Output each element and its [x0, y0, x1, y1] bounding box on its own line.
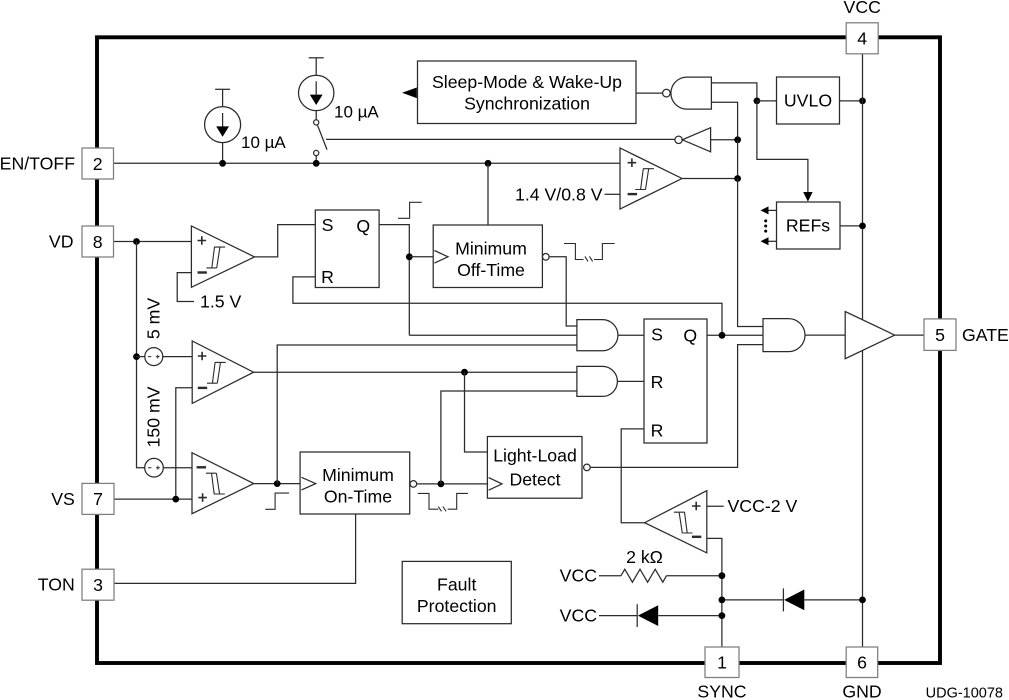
buffer U13 (gate driver) [845, 312, 895, 359]
wire U8 output to buffer [805, 334, 845, 336]
wire 150mV source to comparator U10 minus [163, 467, 192, 469]
chevron input marker Min On-Time [302, 477, 316, 490]
svg-text:1.4 V/0.8 V: 1.4 V/0.8 V [515, 184, 603, 204]
wire latch1 R loop to latch2 Q [293, 277, 722, 335]
svg-text:R: R [651, 421, 664, 441]
wire latch2 R bottom to comparator U12 output [621, 429, 644, 523]
node dot D1/SYNC [719, 612, 726, 619]
wire bus down to AND U8 top input [738, 179, 763, 327]
wire U9 output to AND U7b top input [254, 371, 577, 373]
wire bus vertical segment [737, 140, 739, 179]
comparator U5 (VD 1.5V, hysteresis) [191, 226, 254, 287]
inverter U3 (left-facing) [675, 128, 711, 152]
waveform step-up symbol near latch1 Q [398, 202, 422, 218]
wire U12 plus to VCC-2V label [707, 505, 724, 507]
wire branch up to AND U7b bottom input [441, 391, 577, 484]
NAND gate U2 (left-facing) [663, 77, 712, 109]
svg-text:REFs: REFs [786, 216, 830, 236]
wire sleep block to NAND bubble [636, 92, 663, 94]
svg-text:VS: VS [51, 489, 75, 509]
svg-text:Light-Load: Light-Load [493, 446, 577, 466]
node junction dots on EN/TOFF line [219, 160, 226, 167]
wire Light-Load output up to AND U8 bottom input [590, 345, 763, 468]
node dot D2/GND rail [859, 597, 866, 604]
wire latch2 Q to AND U8 mid input [707, 334, 763, 336]
block Fault Protection [402, 561, 511, 623]
wire Min On-Time output to Light-Load chevron [417, 483, 488, 485]
node dot latch1 Q / minoff input [406, 253, 413, 260]
wire 1.4V label to comparator minus [605, 193, 621, 195]
node dot VS branch [172, 496, 179, 503]
svg-text:UVLO: UVLO [784, 91, 832, 111]
wire VD net pin8 to comparator U5 [114, 241, 192, 243]
svg-text:GATE: GATE [962, 325, 1009, 345]
waveform pulse-low symbol right of Min On-Time [418, 493, 468, 511]
svg-text:Detect: Detect [509, 470, 560, 490]
svg-text:Q: Q [356, 216, 370, 236]
wire U7 mid input (from latch1 Q) [409, 334, 577, 336]
wire junction to UVLO [757, 100, 777, 102]
node dot U10 output branch [274, 480, 281, 487]
wire branch up to AND U7 bottom input [277, 345, 577, 484]
wire VD branch to 5mV source [137, 356, 145, 358]
svg-text:10 µA: 10 µA [241, 133, 286, 152]
svg-text:150 mV: 150 mV [144, 386, 164, 447]
svg-text:2: 2 [93, 154, 103, 174]
svg-text:GND: GND [842, 682, 881, 700]
pin 1 SYNC [705, 647, 739, 678]
comparator U4 (EN threshold, hysteresis) [620, 148, 682, 209]
wire inverter input from bus [711, 139, 738, 141]
current source I1 10uA [205, 89, 241, 163]
svg-text:Synchronization: Synchronization [464, 94, 590, 114]
svg-text:TON: TON [38, 575, 75, 595]
svg-text:R: R [321, 267, 334, 287]
bubble Light-Load output [584, 464, 591, 471]
pin 7 VS [82, 483, 114, 514]
bubble Min On-Time output [410, 481, 417, 488]
svg-text:1.5 V: 1.5 V [200, 292, 242, 312]
svg-text:Minimum: Minimum [322, 465, 394, 485]
svg-text:VCC-2 V: VCC-2 V [728, 496, 798, 516]
block Minimum On-Time [300, 452, 410, 514]
svg-text:Q: Q [683, 325, 697, 345]
svg-text:4: 4 [857, 29, 867, 49]
node dot UVLO/VCC rail [859, 98, 866, 105]
wire UVLO to VCC rail [840, 100, 863, 102]
svg-text:VD: VD [49, 232, 74, 252]
svg-text:5 mV: 5 mV [144, 298, 164, 339]
block Sleep-Mode & Wake-Up Synchronization [418, 61, 637, 124]
node dot inverter bus [734, 136, 741, 143]
bubble Min Off-Time output [543, 253, 550, 260]
block Minimum Off-Time [433, 225, 542, 288]
source V2 150 mV [145, 458, 164, 477]
svg-text:7: 7 [93, 489, 103, 509]
wire node to Min Off-Time input [409, 256, 433, 258]
wire EN/TOFF horizontal net pin2 to comparator [114, 162, 621, 164]
chevron input marker Light-Load [489, 478, 502, 491]
outer border frame [97, 37, 940, 663]
REFs output arrows left [761, 206, 777, 245]
wire latch1 Q output right and down [379, 225, 409, 336]
node dot VD branch [133, 238, 140, 245]
wire U7 output to latch2 S [618, 334, 644, 336]
block UVLO [777, 77, 840, 124]
arrowhead into REFs [803, 192, 812, 202]
svg-text:R: R [651, 372, 664, 392]
svg-text:8: 8 [93, 232, 103, 252]
wire TON pin3 to Min On-Time bottom [114, 514, 356, 583]
diode D2 [722, 588, 863, 611]
svg-text:10 µA: 10 µA [334, 103, 379, 122]
svg-text:Sleep-Mode & Wake-Up: Sleep-Mode & Wake-Up [432, 72, 622, 92]
pin 4 VCC [846, 23, 878, 54]
node dot D2/SYNC [719, 597, 726, 604]
wire U9 minus down to VS node [176, 388, 192, 499]
pin 5 GATE [924, 319, 956, 351]
switch SW1 [314, 120, 327, 164]
node dot resistor/SYNC [719, 572, 726, 579]
wire U10 output to Min On-Time [254, 483, 300, 485]
svg-text:EN/TOFF: EN/TOFF [0, 153, 75, 173]
svg-text:3: 3 [93, 575, 103, 595]
block REFs [777, 202, 841, 249]
node dot REFs/VCC rail [859, 223, 866, 230]
wire VS net pin7 to U10 plus [114, 498, 192, 500]
source V1 5 mV [145, 348, 163, 366]
svg-text:VCC: VCC [560, 606, 598, 626]
wire U7b output to latch2 R [617, 380, 644, 382]
pin 3 TON [82, 569, 114, 600]
svg-text:UDG-10078: UDG-10078 [926, 686, 1003, 700]
AND gate U8 (3-input to gate driver) [763, 319, 805, 352]
chevron input marker Min Off-Time [434, 251, 448, 264]
wire EN line down into Min Off-Time top [487, 163, 489, 225]
wire comparator U4 output to bus [682, 178, 738, 180]
pin 2 EN/TOFF [82, 148, 114, 179]
svg-text:Fault: Fault [437, 575, 476, 595]
diode D1 [599, 604, 722, 627]
wire REFs to VCC rail [840, 225, 863, 227]
svg-text:Off-Time: Off-Time [457, 260, 525, 280]
svg-text:Protection: Protection [417, 596, 497, 616]
svg-text:2 kΩ: 2 kΩ [626, 547, 663, 567]
pin 6 GND [846, 647, 878, 678]
SR latch U11 [644, 319, 707, 443]
resistor R1 2k [599, 569, 722, 582]
svg-text:SYNC: SYNC [697, 682, 746, 700]
wire U12 minus down SYNC node [707, 538, 722, 647]
wire 5mV source to comparator U9 plus [162, 356, 192, 358]
svg-text:6: 6 [857, 652, 867, 672]
wire buffer output to pin5 [895, 334, 924, 336]
node dot latch2 Q [719, 332, 726, 339]
svg-text:1: 1 [717, 652, 727, 672]
AND gate U7 (3-input to latch2 S) [577, 320, 618, 351]
wire switch to inverter [326, 138, 675, 140]
node dot VD/5mV branch [133, 353, 140, 360]
arrow out of sleep block (left) [402, 88, 417, 99]
wire NAND input top to UVLO node [711, 83, 757, 101]
svg-text:Minimum: Minimum [455, 238, 527, 258]
wire VD vertical branch down to 150mV source [137, 242, 145, 468]
node dot Min On-Time output branch [438, 481, 445, 488]
wire U5 minus to 1.5V label [177, 273, 194, 302]
wire branch down to Light-Load input [465, 372, 488, 452]
svg-text:S: S [322, 215, 334, 235]
AND gate U7b (to latch2 R) [577, 366, 618, 396]
comparator U10 (150mV, hysteresis) [192, 453, 254, 514]
waveform pulse-low symbol right of Min Off-Time [564, 244, 615, 262]
SR latch U6 [315, 210, 379, 288]
wire NAND input bottom to vertical bus [711, 102, 737, 140]
pin 8 VD [82, 226, 114, 257]
node dot U9 output branch [461, 369, 468, 376]
wire junction down and right to REFs arrow [757, 101, 808, 193]
wire Min Off-Time output to AND U7 top input [549, 257, 577, 326]
comparator U9 (5mV, hysteresis) [192, 341, 253, 403]
svg-text:VCC: VCC [844, 0, 882, 17]
current source I2 10uA [299, 58, 334, 120]
waveform step-up symbol left of Min On-Time [265, 493, 289, 509]
comparator U12 (VCC-2V, left-facing, hysteresis) [645, 491, 707, 553]
node dot NAND/UVLO junction [754, 98, 761, 105]
svg-text:VCC: VCC [560, 566, 598, 586]
svg-text:S: S [651, 324, 663, 344]
node dot comparator output bus [734, 175, 741, 182]
wire U5 output to latch1 S [255, 225, 316, 257]
svg-text:On-Time: On-Time [324, 487, 392, 507]
VCC rail vertical pin4 to pin6 [862, 54, 864, 647]
block Light-Load Detect [487, 437, 582, 499]
svg-text:5: 5 [935, 325, 945, 345]
